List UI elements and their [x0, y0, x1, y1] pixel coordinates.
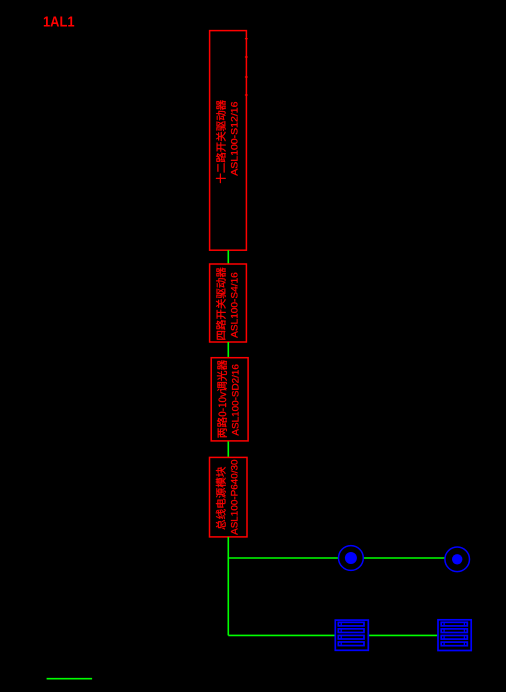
terminal ticks on right edge of U1	[245, 39, 248, 95]
vertical bus wire below U4	[227, 537, 229, 636]
U1 label text 十二路开关驱动器	[216, 100, 226, 183]
branch wire to lamp L1	[228, 557, 338, 559]
module box U4: bus power module ASL100-P640/30	[210, 457, 248, 537]
module box U1: 12-ch switch driver ASL100-S12/16	[210, 31, 247, 251]
U2 label text 四路开关驱动器	[216, 268, 226, 340]
grille luminaire F2	[438, 620, 471, 651]
wire U1 to U2	[227, 250, 229, 264]
spare green segment bottom-left	[47, 678, 93, 680]
lamp L2 (ceiling lamp symbol)	[445, 547, 470, 572]
wire F1 to F2	[369, 634, 438, 636]
U3 label text 两路0-10v调光器	[217, 360, 227, 438]
svg-text:ASL100-P640/30: ASL100-P640/30	[229, 460, 240, 535]
svg-text:ASL100-SD2/16: ASL100-SD2/16	[231, 364, 242, 436]
wire L1 to L2	[364, 557, 445, 559]
wire U3 to U4	[227, 441, 229, 457]
branch wire to grille luminaire F1	[228, 634, 334, 636]
grille luminaire F1	[335, 620, 368, 650]
svg-text:1AL1: 1AL1	[43, 15, 75, 31]
lamp L1 (ceiling lamp symbol)	[339, 546, 364, 571]
svg-text:ASL100-S12/16: ASL100-S12/16	[229, 102, 240, 176]
svg-text:ASL100-S4/16: ASL100-S4/16	[229, 272, 240, 338]
wire U2 to U3	[227, 342, 229, 357]
module box U2: 4-ch switch driver ASL100-S4/16	[210, 264, 247, 342]
module box U3: 2-ch 0-10v dimmer ASL100-SD2/16	[211, 358, 248, 441]
U4 label text 总线电源模块	[216, 467, 226, 530]
